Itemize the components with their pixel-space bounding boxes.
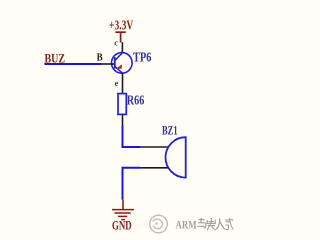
- wire buzzer bottom to ground: [123, 168, 141, 200]
- transistor TP6 base bar: [114, 57, 116, 69]
- buzzer BZ1 body: [165, 137, 185, 177]
- svg-text:TP6: TP6: [133, 51, 151, 66]
- watermark glyph 式: [225, 218, 233, 230]
- base pin: [102, 63, 114, 65]
- buzzer bottom pin: [140, 167, 168, 169]
- power symbol stem: [120, 32, 122, 42]
- transistor TP6 circle: [112, 53, 133, 74]
- wire resistor to buzzer top: [123, 126, 141, 147]
- power symbol +3.3V bar: [115, 31, 125, 33]
- ground bar 3: [118, 215, 127, 217]
- watermark glyph 入: [216, 219, 225, 230]
- wire emitter to resistor: [122, 73, 124, 94]
- svg-text:R66: R66: [127, 93, 145, 108]
- svg-text:BUZ: BUZ: [45, 51, 66, 66]
- resistor bottom pin: [122, 114, 124, 126]
- svg-text:BZ1: BZ1: [162, 123, 178, 138]
- watermark glyph 与: [198, 218, 207, 228]
- svg-text:ARM: ARM: [176, 220, 197, 232]
- svg-text:GND: GND: [112, 219, 132, 233]
- ground bar 4: [121, 219, 125, 221]
- resistor R66 body: [118, 94, 126, 115]
- wire BUZ net: [45, 63, 102, 65]
- svg-text:e: e: [115, 78, 119, 88]
- transistor TP6 emitter arrow: [116, 64, 122, 69]
- svg-text:c: c: [114, 37, 118, 47]
- transistor TP6 emitter diagonal: [115, 66, 123, 73]
- buzzer top pin: [140, 146, 168, 148]
- transistor TP6 collector diagonal: [115, 53, 123, 61]
- ground bar 2: [115, 212, 131, 214]
- ground stem: [122, 200, 124, 210]
- watermark glyph 嵌: [207, 218, 215, 230]
- ground bar 1: [112, 209, 134, 211]
- wire collector pin: [121, 42, 123, 53]
- watermark logo circle: [150, 215, 168, 233]
- svg-text:B: B: [97, 52, 104, 64]
